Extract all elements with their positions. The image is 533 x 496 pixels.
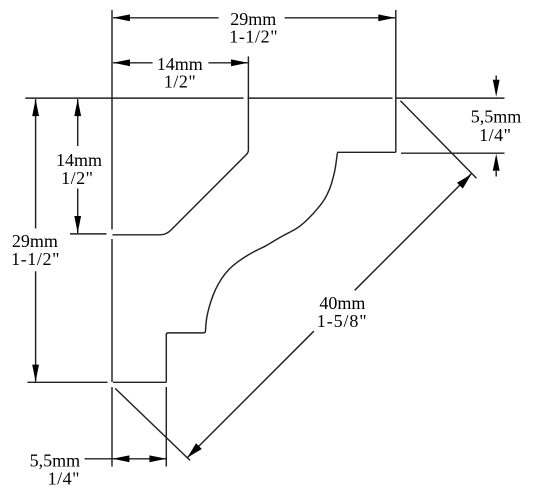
profile left vertical edge + back diagonal + back horizontal [112, 56, 248, 234]
svg-text:1/2": 1/2" [164, 71, 196, 91]
arrowhead 14 top dim left [113, 59, 130, 66]
arrowhead 14 top dim right [231, 59, 248, 66]
arrowhead left14 down [74, 216, 81, 233]
profile step y=152 [337, 151, 396, 153]
svg-text:1-5/8": 1-5/8" [317, 311, 368, 331]
arrowhead left29 up [32, 99, 39, 116]
right 5.5mm arrows tails x=496 [495, 76, 497, 177]
40mm lower extension diagonal [115, 388, 190, 460]
ogee curve [166, 153, 337, 382]
40mm dimension line [188, 174, 472, 458]
svg-text:1/4": 1/4" [48, 468, 80, 488]
right extension line y=153 [401, 152, 505, 154]
left 14mm dimension line x=77.7 [77, 99, 79, 233]
bottom face line y=382 [27, 381, 166, 383]
arrowhead bottom5.5 left [112, 455, 129, 462]
svg-text:1-1/2": 1-1/2" [11, 249, 60, 269]
arrowhead 40mm upper [457, 174, 471, 188]
left 29mm dimension line x=35.6 [35, 99, 37, 382]
arrowhead right5.5 up [493, 154, 500, 171]
arrowhead top dim left [113, 14, 130, 21]
svg-text:1/4": 1/4" [479, 125, 511, 145]
svg-text:5,5mm: 5,5mm [471, 106, 522, 126]
arrowhead right5.5 down [493, 80, 500, 97]
40mm upper extension diagonal [400, 101, 476, 179]
extension line x=166 below profile [165, 387, 167, 467]
svg-text:14mm: 14mm [56, 150, 102, 170]
svg-text:1-1/2": 1-1/2" [229, 27, 278, 47]
svg-text:29mm: 29mm [12, 231, 58, 251]
svg-text:1/2": 1/2" [61, 168, 93, 188]
svg-text:40mm: 40mm [319, 293, 365, 313]
long left vertical extension x=112 [111, 10, 113, 467]
top 14mm dimension line y=62.8 [113, 62, 248, 64]
arrowhead left29 down [32, 365, 39, 382]
bottom 5.5mm dimension line y=458.8 [85, 458, 166, 460]
14mm tick y=235 [70, 233, 107, 235]
arrowhead top dim right [378, 14, 395, 21]
arrowhead 40mm lower [188, 443, 202, 457]
ceiling/top face line [25, 97, 504, 99]
top 29mm dimension line y=17.8 [113, 17, 395, 19]
arrowhead bottom5.5 right [149, 455, 166, 462]
profile right vertical edge x=396 [395, 10, 397, 152]
arrowhead left14 up [74, 99, 81, 116]
